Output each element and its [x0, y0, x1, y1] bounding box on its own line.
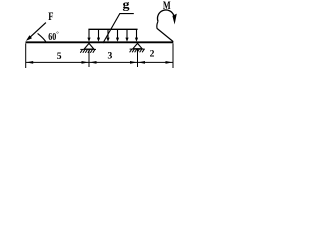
dim arrow right of 5 [82, 61, 89, 64]
dim arrow left of 5 [26, 61, 33, 64]
leader line to g [103, 14, 134, 43]
force F arrow line [29, 23, 46, 39]
moment M arrowhead [172, 14, 176, 25]
svg-text:5: 5 [57, 51, 62, 62]
extension line support B [137, 49, 139, 67]
support A triangle [84, 43, 94, 49]
svg-text:g: g [123, 0, 131, 12]
dim arrow left of 3 [90, 61, 97, 64]
dim arrow left of 2 [138, 61, 145, 64]
support B triangle [133, 43, 142, 48]
dim arrow right of 2 [166, 61, 173, 64]
support B hatching [130, 49, 145, 52]
svg-text:°: ° [56, 30, 59, 37]
extension line support A [88, 49, 90, 67]
support B ground line [130, 48, 145, 50]
extension line right end [172, 43, 174, 68]
dim arrow right of 3 [130, 61, 137, 64]
svg-text:M: M [163, 0, 171, 12]
svg-text:2: 2 [150, 49, 155, 60]
dimension line [26, 61, 173, 63]
beam [26, 41, 174, 43]
distributed load arrowheads [87, 38, 138, 42]
svg-text:F: F [48, 11, 53, 23]
extension line left end [25, 43, 27, 68]
force F arrowhead [26, 35, 32, 41]
support A hatching [80, 49, 95, 52]
svg-text:60: 60 [48, 32, 56, 43]
distributed load arrow stems [89, 29, 137, 38]
moment curved tail to beam end [157, 21, 173, 41]
moment M arc [157, 10, 173, 21]
distributed load line [88, 28, 137, 30]
support A ground line [80, 48, 96, 50]
angle arc 60 [38, 33, 46, 41]
svg-text:3: 3 [108, 50, 113, 61]
